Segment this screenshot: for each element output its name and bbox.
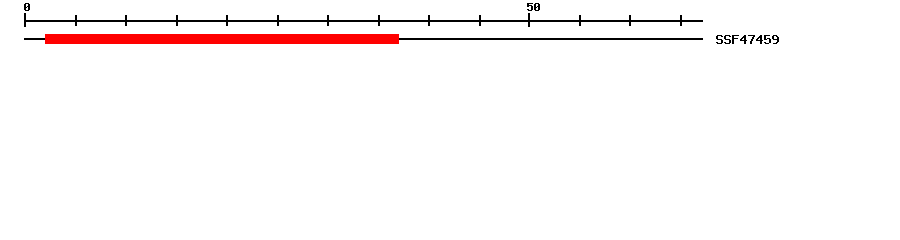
domain label char "5": [764, 35, 771, 44]
domain label char "F": [732, 35, 739, 44]
domain label char "7": [748, 35, 755, 44]
domain bar SSF47459 (red): [45, 34, 399, 44]
domain label char "S": [724, 35, 731, 44]
domain label char "4": [756, 35, 763, 44]
sequence backbone line: [24, 38, 703, 40]
ruler minor tick at 65: [680, 15, 682, 26]
domain label char "S": [716, 35, 723, 44]
domain label char "9": [772, 35, 779, 44]
background: [0, 0, 900, 58]
domain label char "4": [740, 35, 747, 44]
ruler minor tick at 40: [428, 15, 430, 26]
ruler axis line: [24, 20, 703, 22]
ruler minor tick at 25: [277, 15, 279, 26]
ruler minor tick at 15: [176, 15, 178, 26]
ruler major tick at 0: [24, 13, 26, 27]
ruler minor tick at 60: [629, 15, 631, 26]
ruler major tick at 50: [528, 13, 530, 27]
ruler minor tick at 35: [378, 15, 380, 26]
ruler minor tick at 45: [479, 15, 481, 26]
ruler minor tick at 5: [75, 15, 77, 26]
ruler minor tick at 10: [125, 15, 127, 26]
ruler label "50" digit 5: [527, 3, 533, 11]
ruler minor tick at 30: [327, 15, 329, 26]
ruler label "0": [24, 3, 30, 11]
ruler label "50" digit 0: [534, 3, 540, 11]
ruler minor tick at 20: [226, 15, 228, 26]
ruler minor tick at 55: [579, 15, 581, 26]
